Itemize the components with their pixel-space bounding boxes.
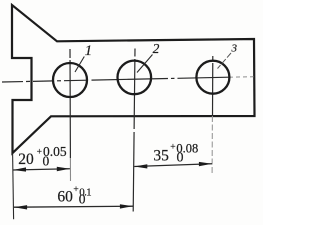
left extension line below part [13, 154, 14, 220]
svg-text:20: 20 [18, 151, 34, 168]
arrowhead right of dim 60 [120, 204, 133, 208]
arrowhead left of dim 20 [13, 167, 26, 171]
arrowhead right of dim 35 [199, 162, 212, 166]
svg-text:0: 0 [79, 192, 86, 207]
svg-text:+: + [37, 148, 42, 158]
hole 2 vertical centerline / extension [133, 49, 135, 212]
hole 1 centerline lower gray part [69, 158, 71, 181]
hole 3 extension line below (gray) [211, 116, 213, 175]
hole 1 [53, 63, 87, 97]
arrowhead left of dim 35 [134, 164, 147, 168]
hole 3 vertical centerline [212, 56, 214, 116]
dimension line 35 [134, 164, 212, 167]
arrowhead left of dim 60 [14, 205, 27, 209]
horizontal centerline gray right end [229, 76, 254, 79]
svg-text:3: 3 [231, 43, 238, 55]
leader line for label 2 [137, 55, 153, 73]
leader line for label 3 [218, 53, 232, 69]
hole 1 vertical centerline [69, 49, 71, 158]
svg-text:1: 1 [85, 43, 93, 59]
hole 2 [118, 61, 152, 95]
part outline [12, 5, 255, 153]
arrowhead right of dim 20 [57, 167, 70, 171]
svg-text:2: 2 [153, 41, 160, 56]
dimension line 60 [14, 206, 133, 207]
dimension line 20 [13, 169, 70, 170]
svg-text:0: 0 [43, 153, 50, 168]
leader line for label 1 [75, 57, 84, 73]
svg-text:+: + [170, 143, 175, 153]
hole 3 [196, 61, 229, 94]
svg-text:35: 35 [153, 147, 169, 164]
svg-text:0: 0 [177, 150, 184, 165]
svg-text:60: 60 [57, 189, 73, 206]
horizontal centerline (hole axis) [2, 77, 229, 82]
